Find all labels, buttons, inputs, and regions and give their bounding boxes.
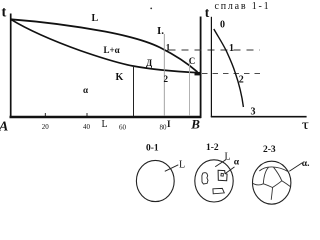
- svg-text:60: 60: [119, 124, 127, 132]
- leader line to L (circle 0-1): [165, 165, 179, 172]
- svg-text:L: L: [102, 119, 108, 130]
- grain boundary Y right branch: [273, 181, 282, 188]
- dashed tie line t2: [202, 73, 263, 75]
- grain boundary Y left branch: [263, 184, 272, 188]
- vertical line from point C: [189, 63, 191, 117]
- leader line to α (circle 2-3): [289, 163, 302, 171]
- svg-text:Д: Д: [146, 58, 153, 68]
- temperature axis (left diagram y-axis): [10, 14, 12, 118]
- svg-text:K: K: [116, 72, 124, 83]
- leader line to α (circle 1-2): [226, 167, 235, 174]
- solidus curve: [11, 19, 198, 72]
- microstructure circle 0-1 (liquid): [136, 160, 174, 201]
- svg-text:τ: τ: [302, 118, 310, 133]
- svg-text:t: t: [205, 5, 210, 20]
- svg-text:α: α: [83, 85, 88, 95]
- svg-text:2: 2: [164, 74, 169, 84]
- component B axis (right border of diagram): [200, 17, 202, 119]
- svg-text:1: 1: [166, 43, 171, 53]
- svg-text:α.: α.: [302, 159, 310, 169]
- grain boundary descending right: [274, 167, 282, 181]
- microstructure circle 1-2 (L + α crystals): [195, 160, 233, 202]
- vertical line from point K: [133, 66, 135, 116]
- svg-text:0: 0: [220, 20, 225, 31]
- junction point marker on B axis: [195, 72, 201, 76]
- svg-text:сплав 1-1: сплав 1-1: [215, 1, 271, 12]
- α crystal blob left: [202, 173, 208, 184]
- leader line to L (circle 1-2): [215, 160, 226, 167]
- svg-text:α: α: [234, 158, 240, 168]
- cooling-curve time axis: [211, 116, 307, 118]
- svg-text:I: I: [167, 119, 171, 129]
- svg-text:I.: I.: [157, 25, 164, 37]
- dashed tie line t1: [169, 49, 261, 51]
- speck dot: [150, 7, 152, 9]
- tick 20: [44, 113, 46, 117]
- svg-text:1-2: 1-2: [206, 143, 219, 153]
- liquidus curve: [11, 19, 198, 72]
- α crystal blob bottom: [213, 188, 224, 193]
- svg-text:2: 2: [239, 75, 244, 86]
- svg-text:20: 20: [42, 123, 50, 131]
- svg-text:40: 40: [83, 123, 91, 131]
- svg-text:80: 80: [160, 124, 168, 132]
- alloy I composition line: [163, 34, 165, 116]
- svg-text:L: L: [225, 152, 231, 163]
- α crystal blob right inner: [221, 173, 224, 176]
- microstructure circle 2-3 (α grains): [253, 161, 291, 204]
- svg-text:3: 3: [251, 106, 256, 117]
- svg-text:t: t: [2, 4, 7, 20]
- composition axis (left diagram x-axis): [10, 116, 202, 119]
- grain boundary top chord: [259, 167, 287, 171]
- svg-text:B: B: [190, 117, 200, 132]
- grain boundary descending left: [263, 167, 268, 184]
- svg-text:L+α: L+α: [104, 45, 120, 55]
- svg-text:0-1: 0-1: [146, 143, 159, 153]
- cooling curve: [214, 29, 244, 107]
- grain boundary Y stem: [271, 188, 272, 200]
- cooling-curve temperature axis: [210, 17, 212, 117]
- svg-text:2-3: 2-3: [263, 145, 276, 155]
- grain boundary to right edge: [282, 181, 290, 187]
- svg-text:L: L: [179, 160, 185, 171]
- grain boundary left wiggle to edge: [252, 183, 263, 185]
- svg-text:L: L: [92, 13, 99, 24]
- svg-text:1: 1: [229, 43, 234, 54]
- α crystal blob right outer: [218, 170, 227, 180]
- tick 40: [86, 113, 88, 117]
- svg-text:A: A: [0, 120, 8, 135]
